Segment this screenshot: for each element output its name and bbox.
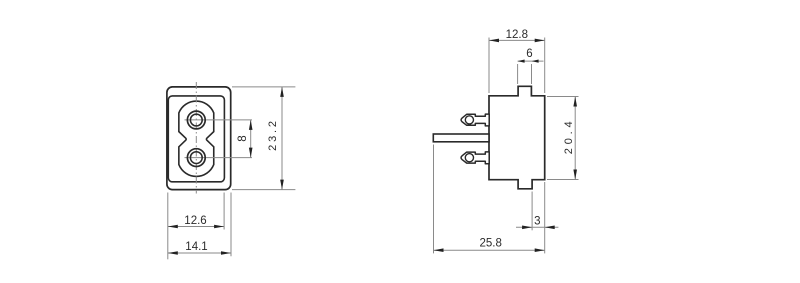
pin 1 horizontal centerline / extension for dim 8: [185, 119, 253, 121]
dim 12.8 arrow right: [535, 39, 545, 43]
dim 8 arrow down: [249, 148, 253, 158]
svg-text:23.2: 23.2: [267, 118, 279, 151]
dim 25.8 arrow left: [434, 248, 444, 252]
solder lug upper: [461, 114, 489, 126]
dim 6 line: [518, 60, 544, 62]
dim 12.6 right extension line: [223, 193, 225, 230]
dim 8 line: [250, 120, 252, 158]
pin 1 outer circle: [187, 111, 205, 129]
svg-text:25.8: 25.8: [480, 238, 502, 250]
dim 20.4 arrow up: [573, 97, 577, 107]
svg-text:6: 6: [526, 48, 532, 60]
dim 6 left extension line: [517, 64, 519, 84]
dim 20.4 top extension line: [547, 96, 579, 98]
dim 23.2 arrow up: [280, 87, 284, 97]
dim 25.8 left extension line: [433, 145, 435, 254]
pin 2 inner circle: [190, 152, 202, 164]
svg-text:8: 8: [237, 135, 249, 141]
dim 12.6 arrow right: [214, 225, 224, 229]
dim 6 arrow right: [532, 60, 539, 63]
dim 12.6 / 14.1 shared left extension line: [167, 193, 169, 260]
dim 14.1 arrow right: [221, 251, 231, 255]
dim 12.8 line: [489, 39, 545, 41]
dim 25.8 line: [434, 249, 545, 251]
svg-text:12.8: 12.8: [506, 29, 528, 41]
contact pin: [433, 134, 489, 142]
dim 20.4 arrow down: [573, 170, 577, 180]
dim 12.8 arrow left: [489, 39, 499, 43]
dim 25.8 arrow right: [535, 248, 545, 252]
figure-8 recess outline: [179, 101, 214, 176]
vertical centerline: [195, 82, 197, 194]
dim 23.2 line: [281, 87, 283, 190]
dim 8 arrow up: [249, 120, 253, 130]
dim 23.2 bottom extension line: [232, 189, 295, 191]
dim 14.1 arrow left: [168, 251, 178, 255]
dim 14.1 right extension line: [230, 193, 232, 257]
pin 2 outer circle: [187, 149, 205, 167]
solder lug lower hole: [465, 154, 473, 162]
dim 3 left extension line: [531, 192, 533, 231]
dim 12.8 left extension line: [488, 38, 490, 94]
outer flange outline: [167, 87, 231, 190]
dim 12.6 arrow left: [168, 225, 178, 229]
dim 3 arrow pointing right at left ext: [522, 226, 532, 230]
svg-text:14.1: 14.1: [185, 241, 207, 253]
svg-text:20.4: 20.4: [563, 118, 575, 155]
dim 12.6 line: [168, 226, 224, 228]
inner face outline: [168, 96, 224, 182]
dim 25.8 / dim 3 shared right extension line: [544, 182, 546, 253]
dim 6 right extension line: [531, 64, 533, 84]
svg-text:12.6: 12.6: [184, 215, 206, 227]
dim 23.2 top extension line: [232, 86, 295, 88]
dim 20.4 line: [574, 97, 576, 180]
dim 20.4 bottom extension line: [547, 179, 579, 181]
dim 3 arrow pointing left at right ext: [545, 226, 555, 230]
dim 12.8 right extension line: [544, 38, 546, 94]
dim 23.2 arrow down: [280, 180, 284, 190]
solder lug upper hole: [465, 116, 473, 124]
dim 6 arrow left: [518, 60, 525, 63]
body outline with top and bottom tabs: [489, 86, 545, 189]
svg-text:3: 3: [534, 216, 540, 228]
dim 3 line with outside arrows: [516, 226, 558, 228]
pin 2 horizontal centerline / extension for dim 8: [185, 157, 253, 159]
pin 1 inner circle: [190, 114, 202, 126]
solder lug lower: [461, 152, 489, 164]
dim 14.1 line: [168, 252, 231, 254]
